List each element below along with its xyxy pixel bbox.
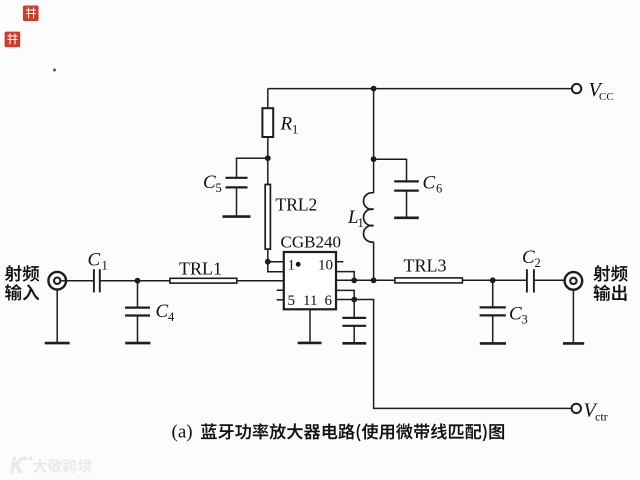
wire node to pin 2 xyxy=(268,262,284,272)
svg-text:C: C xyxy=(203,172,216,193)
svg-text:1: 1 xyxy=(358,216,364,230)
wire pin 11 to ground xyxy=(309,309,311,341)
node C3/C2 junction xyxy=(490,277,496,283)
watermark stamp 2 xyxy=(5,32,21,48)
wire C1 to node xyxy=(101,280,138,282)
svg-text:5: 5 xyxy=(288,293,296,309)
svg-text:C: C xyxy=(88,250,101,271)
svg-text:TRL2: TRL2 xyxy=(276,195,318,215)
label RF input line2 输入 xyxy=(5,284,39,301)
wire input to C1 xyxy=(60,280,93,282)
wire pin right upper to output line xyxy=(336,272,354,281)
node C1/C4/TRL1 junction xyxy=(135,278,141,284)
wire output connector to ground xyxy=(572,290,574,343)
connector RF output inner xyxy=(570,278,576,284)
ground C3 xyxy=(480,342,506,345)
connector RF output outer xyxy=(565,272,583,290)
wire pin right lower to pin6 node xyxy=(336,290,354,299)
wire node to TRL1 xyxy=(138,280,170,282)
svg-text:C: C xyxy=(509,304,522,325)
svg-text:CC: CC xyxy=(599,91,614,103)
svg-text:1: 1 xyxy=(288,257,296,273)
microstrip TRL1 xyxy=(170,278,237,283)
wire node to C6 xyxy=(374,159,407,181)
capacitor bypass xyxy=(342,317,366,319)
node output a xyxy=(351,277,357,283)
pin stub left lower b xyxy=(277,299,284,301)
wire R1 to node xyxy=(267,137,269,158)
svg-text:(a): (a) xyxy=(172,422,193,443)
label RF input line1 射频 xyxy=(5,265,39,282)
label RF output line1 射频 xyxy=(593,265,627,282)
capacitor C1 xyxy=(93,269,95,292)
ground pin 11 xyxy=(298,342,322,345)
terminal Vcc circle xyxy=(572,84,581,93)
svg-text:TRL1: TRL1 xyxy=(179,259,222,279)
svg-text:1: 1 xyxy=(292,123,298,137)
microstrip TRL3 xyxy=(395,278,463,283)
ground C6 xyxy=(394,217,419,220)
microstrip TRL2 xyxy=(265,185,270,250)
wire node to C4 xyxy=(137,281,139,307)
wire rail to L1 node xyxy=(373,89,375,160)
connector RF input inner xyxy=(54,278,60,284)
op-amp U1 CGB240 body xyxy=(284,252,336,309)
capacitor C5 xyxy=(226,177,248,179)
stray mark xyxy=(53,69,56,72)
node output b L1 junction xyxy=(371,277,377,283)
capacitor C3 xyxy=(480,306,506,308)
svg-text:TRL3: TRL3 xyxy=(404,256,447,276)
caption text 蓝牙功率放大器电路(使用微带线匹配)图 xyxy=(201,423,504,441)
svg-text:6: 6 xyxy=(325,293,333,309)
wire node to C5 xyxy=(237,158,268,177)
wire TRL2 to pin1 node xyxy=(267,249,269,262)
svg-text:10: 10 xyxy=(318,257,333,273)
svg-text:4: 4 xyxy=(168,310,175,324)
wire TRL1 to IC xyxy=(237,280,284,282)
ground output xyxy=(563,342,584,345)
wire TRL3 to node xyxy=(462,279,492,281)
watermark text 大敬跨境 xyxy=(33,459,92,473)
pin 10 stub xyxy=(336,261,343,263)
watermark logo xyxy=(10,457,25,473)
svg-text:1: 1 xyxy=(102,259,108,273)
wire pin6 node to bypass cap xyxy=(353,300,355,318)
wire pin6 node to Vctr xyxy=(354,300,571,409)
node R1/C5/TRL2 junction xyxy=(265,155,271,161)
svg-text:C: C xyxy=(522,247,535,268)
terminal Vctr circle xyxy=(572,404,581,413)
wire C2 to output connector xyxy=(535,279,565,281)
svg-text:11: 11 xyxy=(303,293,317,309)
svg-text:6: 6 xyxy=(436,182,442,196)
label RF output line2 输出 xyxy=(594,285,627,302)
ground input xyxy=(45,342,70,345)
wire C5 to ground xyxy=(236,188,238,216)
wire Vcc rail xyxy=(268,88,572,90)
node junction on Vcc rail xyxy=(371,86,377,92)
wire pin 6 stub xyxy=(336,299,354,301)
wire C6 to ground xyxy=(406,191,408,217)
ground C4 xyxy=(125,342,150,345)
wire node to TRL2 xyxy=(267,158,269,184)
node L1/C6 junction xyxy=(371,156,377,162)
svg-text:5: 5 xyxy=(216,181,222,195)
capacitor C2 xyxy=(526,269,528,292)
svg-text:2: 2 xyxy=(535,256,541,270)
wire bypass cap to ground xyxy=(353,326,355,342)
svg-text:R: R xyxy=(280,114,293,135)
wire C3 to ground xyxy=(492,316,494,343)
svg-text:C: C xyxy=(156,301,169,322)
inductor L1 xyxy=(364,193,374,242)
wire C4 to ground xyxy=(137,316,139,343)
connector RF input outer xyxy=(48,272,66,290)
watermark stamp 1 xyxy=(23,6,39,22)
svg-text:CGB240: CGB240 xyxy=(281,233,341,252)
wire node to C3 xyxy=(492,280,494,307)
pin 1 marker dot xyxy=(296,262,301,267)
capacitor C4 xyxy=(125,307,150,309)
wire node to C2 xyxy=(493,279,526,281)
resistor R1 xyxy=(262,108,273,137)
ground bypass cap xyxy=(342,342,366,345)
wire IC output line xyxy=(336,279,395,281)
svg-text:3: 3 xyxy=(522,313,528,327)
wire node to L1 xyxy=(373,159,375,193)
pin stub left lower a xyxy=(277,289,284,291)
ground C5 xyxy=(223,215,251,218)
wire node to pin 1 xyxy=(268,261,284,263)
wire input connector to ground xyxy=(56,290,58,343)
svg-text:C: C xyxy=(423,173,436,194)
node pin6 junction xyxy=(351,297,357,303)
capacitor C6 xyxy=(394,180,419,182)
wire Vcc rail to R1 xyxy=(267,89,269,109)
wire L1 to output node xyxy=(373,242,375,280)
svg-text:ctr: ctr xyxy=(595,410,608,424)
node pin1 junction xyxy=(265,259,271,265)
